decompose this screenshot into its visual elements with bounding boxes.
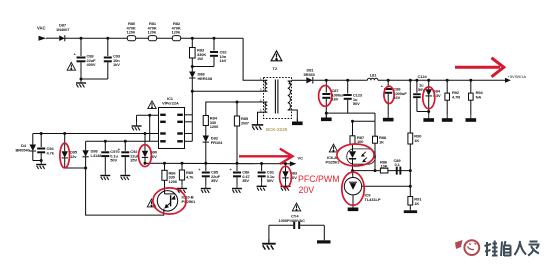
svg-text:2W7: 2W7 (241, 120, 250, 125)
svg-text:HER108: HER108 (198, 76, 213, 81)
svg-text:1206: 1206 (127, 30, 136, 35)
svg-text:L81: L81 (370, 72, 377, 77)
resistor R91 1K (408, 197, 422, 211)
ground R92 chassis (442, 115, 452, 121)
svg-text:35V: 35V (130, 158, 137, 163)
node junctions on VC rail (144, 162, 147, 165)
wire IC1 pin1 vdd (137, 114, 159, 142)
node VC arrow (290, 161, 297, 166)
wire snubber join (192, 66, 214, 68)
resistor R82 470K (172, 21, 181, 41)
capacitor C88 22uF 400V (74, 38, 97, 79)
diode D4 BR0540 (16, 134, 37, 161)
capacitor C85 22uF 35V (198, 163, 220, 184)
warning triangle near IC6 (329, 144, 337, 152)
wire primary lower (206, 102, 264, 116)
resistor R86 330 1206 (162, 163, 178, 191)
svg-text:L4148: L4148 (91, 153, 103, 158)
svg-text:BR0540: BR0540 (16, 147, 31, 152)
svg-text:50V: 50V (353, 101, 360, 106)
wire sense network (326, 113, 375, 123)
resistor R81 470K (148, 21, 157, 41)
svg-text:0.1: 0.1 (395, 162, 401, 167)
red ellipse around D84 (423, 87, 435, 109)
svg-text:4: 4 (260, 99, 262, 103)
warning triangle above CY4 (292, 203, 300, 211)
resistor R87 100 (350, 121, 365, 151)
transformer T2 (260, 66, 292, 119)
svg-text:BCK-2226: BCK-2226 (266, 127, 288, 132)
capacitor C970 0.1u 50V (101, 140, 120, 172)
zener D83 (282, 164, 298, 183)
node VAC (37, 26, 46, 41)
zener D84 (426, 80, 442, 115)
svg-text:50V: 50V (267, 178, 274, 183)
diode D81 SR360 (304, 68, 316, 84)
wire aux rail A (33, 133, 159, 135)
svg-text:1kV: 1kV (220, 58, 227, 63)
svg-text:1206: 1206 (210, 124, 219, 129)
resistor R80 470K (127, 21, 136, 41)
ground primary (252, 120, 264, 130)
node junction R83 (191, 37, 194, 40)
svg-text:35V: 35V (242, 178, 249, 183)
ground C88b chassis (383, 115, 393, 121)
svg-text:C124: C124 (418, 74, 428, 79)
wire secondary rail (292, 79, 307, 81)
primary winding lower (264, 101, 268, 103)
svg-text:NA: NA (476, 94, 482, 99)
ground CY4 chassis (317, 240, 331, 243)
wire feedback rail (353, 170, 411, 172)
node +5VSB output (505, 78, 511, 83)
svg-text:1kV: 1kV (113, 62, 120, 67)
ground C92b (120, 172, 130, 180)
wire IC1 drain stubs (185, 90, 194, 142)
svg-text:1N4007: 1N4007 (56, 27, 70, 32)
svg-text:TL431LP: TL431LP (365, 197, 381, 202)
watermark logo icon (455, 240, 479, 255)
svg-text:VAC: VAC (37, 26, 46, 31)
svg-text:400V: 400V (87, 62, 96, 67)
diode D82 FR104 (203, 136, 224, 164)
red ellipse around IC9 (342, 172, 364, 205)
transistor opto IC10-B PS2561 (157, 191, 196, 212)
ground IC1 pin (132, 122, 142, 130)
red ellipse around D83 (280, 166, 292, 188)
polarity dots (265, 82, 267, 84)
svg-text:1: 1 (260, 77, 262, 81)
svg-text:VC: VC (298, 156, 304, 161)
capacitor C81 0.1u 50V (258, 164, 275, 184)
watermark text (485, 241, 540, 257)
capacitor C88b 1000uF 16V (381, 80, 408, 115)
wire cap bottoms (81, 78, 108, 80)
wire D4 C94 join (33, 160, 41, 162)
capacitor C86 0.47u 35V (230, 163, 251, 184)
svg-text:PS2561: PS2561 (182, 199, 197, 204)
ground aux (36, 161, 46, 169)
warning triangle above T2 (271, 51, 282, 61)
diode D88 HER108 (189, 67, 213, 92)
ground R91 chassis (404, 210, 417, 213)
ground D83 (281, 182, 291, 190)
ground D84 chassis (424, 115, 434, 121)
diode opto LED IC6-A PS2561 (326, 149, 376, 171)
svg-text:1K: 1K (414, 201, 419, 206)
svg-text:1W: 1W (197, 56, 203, 61)
inductor L81 (367, 72, 378, 80)
red arrow output (455, 58, 504, 77)
ground TL431 chassis (348, 205, 358, 211)
red ellipse around D95 (60, 143, 70, 168)
ground R94 chassis (466, 115, 476, 121)
warning triangle near opto (147, 199, 155, 207)
svg-text:1206: 1206 (172, 30, 181, 35)
resistor R85b 2W7 (234, 101, 249, 164)
capacitor C123 1u 50V (344, 80, 363, 113)
svg-text:4.7k: 4.7k (186, 174, 194, 179)
capacitor C124 1u 50V (413, 74, 429, 111)
resistor R83 330K 1W (190, 38, 207, 66)
resistor R86b 10K (380, 160, 388, 173)
svg-text:FR104: FR104 (211, 140, 223, 145)
wire aux rail B (86, 140, 159, 142)
wire D95 to D98 node (65, 167, 86, 169)
capacitor C92 10n 1kV (210, 38, 227, 66)
wire divider column (409, 80, 412, 196)
svg-text:35V: 35V (211, 178, 218, 183)
red ellipse around D90 (139, 145, 152, 167)
svg-text:PFC/PWM: PFC/PWM (298, 174, 340, 184)
svg-text:4.7R: 4.7R (452, 94, 460, 99)
op-amp U1 IC1 VIPer22A (159, 96, 185, 149)
resistor R90 1K (408, 133, 422, 144)
svg-text:1K: 1K (414, 138, 419, 143)
wire VC rail (145, 162, 290, 165)
red ellipse around IC10-B (153, 188, 186, 214)
ground C87 chassis (322, 115, 332, 121)
svg-text:12v: 12v (70, 154, 77, 159)
resistor R85 4.7K (179, 163, 194, 184)
svg-text:5R360: 5R360 (304, 72, 316, 77)
svg-text:1K: 1K (379, 139, 384, 144)
wire VAC to D87 (46, 37, 59, 39)
resistor R94 NA (469, 80, 484, 115)
diode D87 1N4007 (56, 23, 70, 42)
resistor R88 1K (373, 121, 387, 170)
resistor R84 330 1206 (203, 116, 219, 136)
node junction C92 (213, 37, 216, 40)
capacitor C93 10n 1kV (104, 38, 121, 79)
diode D98 LL4148 (82, 141, 102, 168)
wire primary gnd pin (258, 112, 264, 120)
wire top rail y38 (65, 37, 243, 39)
capacitor CY4 1000P/400VAC (269, 214, 324, 230)
ground C85 (201, 185, 211, 193)
capacitor C92b 22uF 35V (118, 140, 140, 172)
ground C86 (232, 185, 242, 193)
svg-text:10K: 10K (381, 164, 388, 169)
capacitor C87 1000uF 16V (319, 80, 346, 117)
ground C970 (100, 172, 110, 180)
wire primary feed (192, 90, 263, 92)
zener D90 20V (142, 132, 158, 163)
secondary winding (288, 80, 292, 82)
svg-text:1206: 1206 (148, 30, 157, 35)
wire CY4 left leg (268, 225, 270, 238)
wire corner drop to transformer (243, 38, 263, 80)
svg-text:50V: 50V (110, 158, 117, 163)
red ellipse around C87 (319, 86, 332, 107)
node junction C88 (80, 37, 83, 40)
node junction C93 (106, 37, 109, 40)
IC9 TL431LP (344, 171, 410, 208)
svg-text:20V: 20V (299, 185, 315, 195)
red ellipse around C88b (384, 86, 394, 103)
zener D95 12V (62, 132, 78, 168)
wire secondary gnd pin (292, 110, 298, 121)
ground secondary chassis (293, 119, 303, 125)
red ellipse around IC6-A (337, 144, 374, 166)
svg-text:3: 3 (260, 88, 262, 92)
ground CY4 earth (262, 238, 276, 249)
wire CY4 right leg (323, 225, 325, 240)
ground R85 (177, 185, 187, 193)
wire opto emitter return (86, 168, 164, 215)
svg-text:1000P/400VAC: 1000P/400VAC (279, 218, 306, 223)
red arrow VC (239, 149, 293, 164)
capacitor C94 4.7n (37, 132, 55, 161)
svg-text:+5VSB/1A: +5VSB/1A (508, 74, 527, 79)
ground input bulk (76, 79, 86, 87)
capacitor C89 0.1 (394, 158, 402, 175)
warning triangle above IC1 (148, 101, 156, 109)
node rail junctions (325, 79, 328, 82)
svg-text:VIPer22A: VIPer22A (162, 101, 179, 106)
ground C81 (257, 182, 267, 190)
resistor R92 4.7R (445, 80, 460, 115)
warning triangle near C88 (67, 62, 75, 70)
primary winding upper (264, 79, 268, 81)
svg-text:1206: 1206 (169, 179, 178, 184)
svg-text:4.7k: 4.7k (47, 150, 55, 155)
